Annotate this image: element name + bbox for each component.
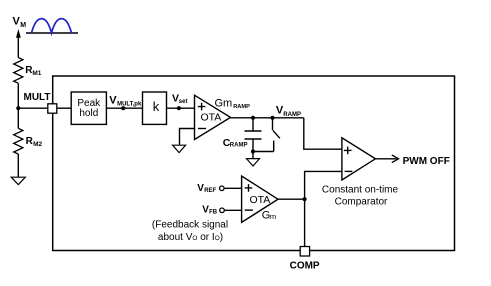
svg-text:Comparator: Comparator [335, 197, 388, 208]
block k [143, 92, 167, 124]
ground (OTA1 minus input) [173, 145, 186, 152]
OTA2 minus sign [245, 209, 253, 211]
svg-text:OTA: OTA [201, 112, 222, 124]
ground (below CRAMP) [247, 159, 260, 166]
label feedback note [152, 220, 228, 243]
block Peak hold [71, 92, 106, 124]
svg-text:m: m [270, 212, 276, 221]
wire VRAMP to comparator plus input [304, 118, 342, 149]
resistor RM2 [14, 128, 23, 154]
svg-text:set: set [179, 99, 188, 105]
pin pad COMP [300, 247, 309, 257]
comparator plus sign [344, 147, 352, 155]
node VMULT,pk dot [121, 106, 125, 110]
label GmRAMP [215, 97, 251, 110]
VM waveform rectified sine (blue) [32, 19, 72, 33]
op-amp OTA1 (GmRAMP) [195, 95, 231, 139]
node VRAMP dot [270, 116, 274, 120]
svg-text:M2: M2 [33, 141, 42, 148]
svg-text:Gm: Gm [215, 97, 233, 109]
wire VFB to OTA2 minus [224, 209, 241, 211]
svg-text:about VO or IO): about VO or IO) [158, 232, 223, 243]
wire k to OTA1 [167, 107, 195, 109]
svg-text:MULT: MULT [24, 92, 51, 103]
wire MULT node down to RM2 [17, 108, 19, 128]
label VM [13, 16, 27, 30]
wire COMP trunk down to pad [304, 199, 306, 246]
node CRAMP top dot [251, 116, 255, 120]
wire pad to Peak hold [57, 107, 71, 109]
terminal VREF [220, 186, 225, 191]
svg-text:MULT,pk: MULT,pk [117, 102, 142, 108]
label Constant on-time Comparator [322, 184, 399, 207]
comparator U (constant on-time) [342, 138, 376, 180]
switch (ramp reset) [253, 118, 280, 152]
svg-text:COMP: COMP [290, 260, 320, 271]
arrow up to VM [16, 29, 21, 58]
label RM2 [26, 136, 43, 148]
wire OTA2 output to COMP trunk [278, 198, 305, 200]
svg-text:M: M [20, 22, 26, 29]
OTA1 minus sign [198, 128, 206, 130]
svg-text:k: k [153, 99, 160, 114]
label VREF [197, 183, 216, 194]
node MULT junction dot [16, 106, 20, 110]
wire Peak hold to k [106, 107, 142, 109]
OTA1 minus input wire to ground [180, 129, 195, 146]
wire VREF to OTA2 plus [224, 187, 242, 189]
label VMULT,pk [109, 94, 142, 107]
svg-text:(Feedback signal: (Feedback signal [152, 220, 228, 231]
svg-text:OTA: OTA [250, 194, 271, 206]
svg-text:M1: M1 [32, 70, 41, 77]
wire MULT node to pad [18, 107, 48, 109]
label CRAMP [223, 137, 248, 149]
node CRAMP bottom dot [251, 149, 255, 153]
op-amp OTA2 (Gm error amp) [242, 176, 278, 222]
terminal VFB [220, 208, 225, 213]
wire RM2 to ground [17, 154, 19, 177]
pin pad MULT [48, 104, 57, 113]
node Vset dot [177, 106, 181, 110]
IC boundary box [53, 76, 455, 251]
wire comparator minus input from COMP trunk [305, 171, 342, 199]
resistor RM1 [14, 58, 23, 84]
wire CRAMP bottom to ground [252, 152, 254, 159]
VM waveform baseline [26, 32, 78, 34]
OTA2 plus sign [245, 184, 253, 192]
svg-text:FB: FB [209, 209, 218, 215]
svg-text:hold: hold [79, 108, 98, 119]
svg-text:RAMP: RAMP [230, 142, 248, 148]
wire RM1 to MULT node [17, 83, 19, 108]
OTA1 plus sign [198, 103, 206, 111]
svg-text:RAMP: RAMP [283, 112, 301, 118]
svg-text:PWM OFF: PWM OFF [403, 156, 450, 167]
label Gm [262, 210, 276, 222]
capacitor CRAMP [245, 118, 262, 152]
svg-text:Constant on-time: Constant on-time [322, 184, 399, 195]
node COMP trunk dot [303, 197, 307, 201]
svg-text:RAMP: RAMP [233, 104, 250, 110]
comparator minus sign [345, 170, 353, 172]
wire OTA1 output to VRAMP corner [231, 117, 304, 119]
ground (below RM2) [11, 177, 25, 184]
comparator output arrow to PWM OFF [375, 155, 398, 163]
label RM1 [25, 65, 42, 77]
label Vset [172, 92, 187, 104]
svg-text:V: V [109, 94, 117, 106]
label VFB [202, 205, 218, 216]
label VRAMP [276, 105, 301, 118]
svg-text:REF: REF [204, 188, 216, 194]
